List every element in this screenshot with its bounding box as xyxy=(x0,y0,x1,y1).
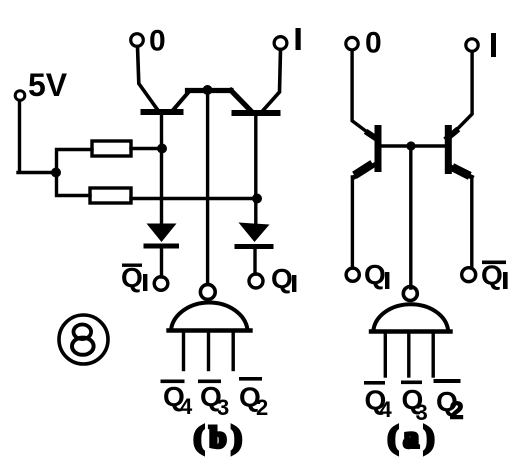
svg-text:(a): (a) xyxy=(388,421,439,454)
svg-text:Q: Q xyxy=(121,262,143,293)
resistor R1 xyxy=(92,141,131,156)
base wire right xyxy=(382,144,445,147)
wire D2 to terminal xyxy=(253,249,256,274)
wire 0 to T3 collector xyxy=(352,51,374,138)
label Q2bar G1 xyxy=(239,377,268,420)
wire 1 to T4 collector xyxy=(450,52,472,137)
gate G1 input pins xyxy=(182,333,185,370)
wire D1 to terminal xyxy=(160,248,163,277)
wire base1 vertical xyxy=(160,115,163,224)
label Q2bar G2 xyxy=(434,379,464,425)
gate G2 body xyxy=(374,304,449,329)
label 1 left xyxy=(296,28,301,50)
wire to R2 xyxy=(57,172,91,196)
node collector common xyxy=(203,85,213,95)
node base common right xyxy=(406,141,415,150)
transistor T3 emitter with arrow xyxy=(354,164,377,178)
wire R2 to node xyxy=(131,197,254,200)
terminal 1 left xyxy=(274,37,287,50)
svg-text:0: 0 xyxy=(149,25,166,58)
terminal Q1bar left xyxy=(154,277,168,291)
terminal 1 right xyxy=(466,39,478,51)
wire base2 vertical xyxy=(254,116,257,223)
wire 5V horizontal xyxy=(18,171,54,174)
terminal Q1 left xyxy=(249,274,263,288)
wire R1 to base xyxy=(131,147,159,150)
terminal 0 left xyxy=(131,34,144,47)
label Q1bar left xyxy=(121,262,147,293)
svg-text:3: 3 xyxy=(217,395,229,420)
terminal Q1bar right xyxy=(462,268,476,282)
label Q4bar G2 xyxy=(364,381,393,422)
gate G1 bubble xyxy=(200,285,215,300)
svg-text:(b): (b) xyxy=(194,421,247,454)
svg-text:Q: Q xyxy=(271,263,293,294)
gate G1 body xyxy=(171,302,248,329)
wire 0 to Q1 emitter xyxy=(138,47,158,110)
label Q1bar right xyxy=(481,260,508,291)
label Q1 left xyxy=(271,263,296,294)
svg-text:2: 2 xyxy=(450,398,463,425)
svg-text:5V: 5V xyxy=(28,67,68,103)
transistor T2 collector to 1 xyxy=(263,50,281,111)
svg-text:0: 0 xyxy=(365,27,382,60)
transistor T2 emitter with arrow xyxy=(231,91,250,111)
wire center vertical left xyxy=(206,92,209,284)
gate G2 input pins xyxy=(384,334,387,376)
wire common node xyxy=(188,88,232,93)
wire 5V vertical xyxy=(18,101,21,172)
svg-text:2: 2 xyxy=(256,395,268,420)
label Q3bar G1 xyxy=(198,380,229,421)
terminal 5V xyxy=(15,91,25,101)
terminal 0 right xyxy=(346,37,358,49)
label Q1 right xyxy=(364,259,389,290)
transistor T4 emitter with arrow xyxy=(451,167,472,177)
diode D1 xyxy=(147,224,177,243)
transistor T4 base bar xyxy=(445,129,452,171)
transistor T2 base bar xyxy=(235,110,278,116)
svg-text:4: 4 xyxy=(380,397,393,422)
wire T3 emitter down xyxy=(351,177,354,268)
node base2 xyxy=(252,194,262,204)
wire to R1 xyxy=(57,150,93,173)
label 1 right xyxy=(491,33,496,57)
number 8 xyxy=(72,325,94,355)
svg-text:Q: Q xyxy=(364,259,386,290)
svg-text:Q: Q xyxy=(481,260,503,291)
terminal Q1 right xyxy=(346,268,359,281)
node junction left xyxy=(51,168,61,178)
node base1 xyxy=(157,144,167,154)
wire T4 emitter down xyxy=(470,177,473,268)
transistor T1 collector xyxy=(174,91,190,110)
badge circle 8 xyxy=(59,315,108,364)
resistor R2 xyxy=(90,188,131,203)
wire center vertical right xyxy=(409,148,412,288)
diode D2 xyxy=(239,223,270,243)
transistor T3 base bar xyxy=(375,129,382,169)
label Q3bar G2 xyxy=(401,381,428,426)
svg-text:4: 4 xyxy=(180,394,193,419)
label Q4bar G1 xyxy=(161,380,194,420)
gate G2 bubble xyxy=(403,287,417,301)
transistor T1 base bar xyxy=(144,109,181,115)
